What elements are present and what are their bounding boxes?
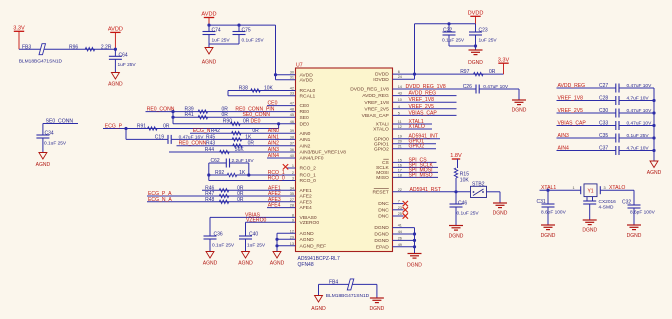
- net label VREF_2V5: [393, 108, 457, 110]
- svg-text:AIN2: AIN2: [300, 143, 311, 149]
- pin 4 VREF_2V5 (right): [364, 105, 399, 113]
- svg-text:30: 30: [290, 71, 294, 75]
- svg-text:23: 23: [398, 206, 402, 210]
- svg-text:0.47uF 10V: 0.47uF 10V: [627, 121, 653, 127]
- svg-text:AFE3: AFE3: [300, 199, 313, 205]
- svg-text:38: 38: [290, 135, 294, 139]
- capacitor C36: [209, 217, 211, 236]
- svg-text:3: 3: [604, 186, 606, 190]
- svg-text:36: 36: [290, 148, 294, 152]
- svg-text:AIN4/LPF0: AIN4/LPF0: [300, 156, 324, 162]
- resistor R91: [148, 127, 157, 130]
- svg-text:RE0_CONN: RE0_CONN: [179, 141, 207, 147]
- ground DGND below C26: [512, 99, 526, 101]
- svg-text:AVDD_REG: AVDD_REG: [362, 93, 389, 99]
- svg-text:DE0: DE0: [300, 121, 310, 127]
- svg-text:19: 19: [398, 135, 402, 139]
- svg-text:DE0: DE0: [251, 119, 261, 125]
- net label DVDD_REG_1V8 / capacitor C26: [393, 88, 477, 90]
- svg-text:XTALO: XTALO: [409, 124, 425, 130]
- svg-text:10K: 10K: [460, 178, 470, 184]
- svg-text:37: 37: [290, 142, 294, 146]
- pin 28 AFE4 (left): [290, 204, 312, 212]
- pin 12 AGND (left): [290, 229, 314, 237]
- resistor R44: [169, 151, 296, 153]
- svg-text:9: 9: [292, 218, 294, 222]
- svg-text:R92: R92: [215, 170, 224, 176]
- pin 34 AFE1 (left): [290, 186, 312, 194]
- no-connect X on DNC pin: [393, 215, 404, 217]
- svg-text:10: 10: [398, 98, 402, 102]
- resistor R96: [85, 48, 95, 51]
- svg-text:RE0_CONN: RE0_CONN: [147, 107, 175, 113]
- svg-text:EPAD: EPAD: [376, 244, 389, 250]
- svg-text:26: 26: [398, 236, 402, 240]
- svg-text:2.2R: 2.2R: [101, 44, 112, 50]
- wire switch to DGND: [487, 191, 501, 193]
- svg-text:AD5941_RST: AD5941_RST: [410, 187, 441, 193]
- ground AGND below AGND pins: [273, 252, 281, 259]
- svg-text:0.1uF 25V: 0.1uF 25V: [627, 133, 650, 139]
- switch STB2: [471, 186, 487, 197]
- svg-text:AFE2: AFE2: [300, 194, 313, 200]
- svg-text:VZERO0: VZERO0: [300, 220, 320, 226]
- ferrite bead FB3: [39, 44, 46, 55]
- net label AD5941_RST / wire: [393, 191, 471, 193]
- svg-text:C75: C75: [242, 27, 251, 33]
- svg-text:C31: C31: [537, 199, 546, 205]
- svg-text:12: 12: [398, 125, 402, 129]
- svg-text:0.1uF 25V: 0.1uF 25V: [242, 37, 265, 43]
- resistor R43: [233, 144, 242, 147]
- svg-text:C19: C19: [155, 134, 164, 140]
- pin 18 MISO (right): [376, 173, 402, 181]
- net label VZERO0 / wire: [246, 221, 296, 223]
- svg-text:DGND: DGND: [468, 60, 483, 66]
- capacitor C19: [126, 138, 168, 140]
- svg-text:R91: R91: [137, 124, 146, 130]
- svg-text:AGND: AGND: [300, 231, 315, 237]
- net label XTALO (crystal): [600, 189, 634, 191]
- net label SPI_MOSI: [393, 171, 439, 173]
- pin 1 RCO_2 (left): [292, 164, 316, 172]
- svg-text:42: 42: [290, 87, 294, 91]
- svg-text:DVDD: DVDD: [468, 11, 484, 17]
- capacitor C74: [208, 25, 210, 31]
- svg-text:AIN4: AIN4: [558, 146, 569, 152]
- svg-text:RCO_2: RCO_2: [300, 166, 317, 172]
- resistor R90 (DE0 row): [173, 123, 296, 125]
- svg-text:DGND: DGND: [582, 228, 597, 234]
- svg-text:AFE4: AFE4: [300, 205, 313, 211]
- svg-text:VBIAS_CAP: VBIAS_CAP: [558, 121, 587, 127]
- net label AVDD_REG: [393, 95, 457, 97]
- svg-text:4: 4: [398, 105, 400, 109]
- net label SPI_SCLK: [393, 166, 439, 168]
- net label SPI_MISO: [393, 176, 439, 178]
- svg-text:3: 3: [292, 177, 294, 181]
- net label ECG_N_A / resistor R48 (AFE3): [147, 201, 296, 203]
- svg-text:1K: 1K: [239, 170, 246, 176]
- svg-text:21: 21: [398, 145, 402, 149]
- svg-text:AGND: AGND: [647, 170, 662, 176]
- wire FB4 right: [376, 284, 378, 297]
- svg-text:ECG_P: ECG_P: [105, 124, 123, 130]
- pin 2 RCO_1 (left): [292, 171, 316, 179]
- no-connect X on DNC pin: [393, 203, 404, 205]
- svg-text:AIN4: AIN4: [268, 153, 279, 159]
- wire node B vertical: [248, 163, 250, 175]
- pin 30 AVDD (left): [290, 71, 313, 79]
- svg-text:DGND: DGND: [374, 232, 389, 238]
- svg-text:GPIO2: GPIO2: [374, 146, 389, 152]
- svg-text:AGND: AGND: [203, 261, 218, 267]
- svg-text:49: 49: [398, 243, 402, 247]
- svg-text:25: 25: [398, 212, 402, 216]
- svg-text:22: 22: [398, 188, 402, 192]
- ground DGND below Y1: [583, 219, 597, 221]
- svg-text:18: 18: [398, 173, 402, 177]
- wire vertical RE0_CONN branch: [172, 112, 174, 124]
- capacitor C28 (VREF_1V8): [557, 100, 616, 102]
- svg-text:AVDD: AVDD: [108, 27, 123, 33]
- svg-text:R41: R41: [185, 112, 194, 118]
- svg-text:11: 11: [398, 120, 402, 124]
- ground AGND below C64: [111, 73, 119, 80]
- svg-text:14: 14: [398, 85, 402, 89]
- svg-text:QFN48: QFN48: [298, 262, 314, 268]
- pin 26 DGND (right): [374, 236, 402, 244]
- svg-text:R45: R45: [206, 134, 215, 140]
- power 1.8V: [452, 158, 460, 160]
- svg-text:12: 12: [290, 229, 294, 233]
- pin 24 IOVDD (right): [373, 75, 402, 83]
- net label SPI_CS: [393, 161, 437, 163]
- wire ECG_P up to DE0 pin: [278, 124, 280, 129]
- svg-text:R48: R48: [205, 197, 214, 203]
- svg-text:AFE1: AFE1: [300, 188, 313, 194]
- wire cap bottoms to DGND: [449, 45, 476, 47]
- net label VREF_1V8: [393, 101, 457, 103]
- svg-text:R97: R97: [460, 69, 469, 75]
- pin 29 AGND (left): [290, 235, 314, 243]
- svg-text:VBIAS_CAP: VBIAS_CAP: [362, 113, 389, 119]
- pin 3 RCO_0 (left): [292, 177, 316, 185]
- net label RE0_CONN (AIN2 row): [177, 145, 296, 147]
- net label RCO_0: [209, 180, 296, 182]
- pin 38 AIN1 (left): [290, 135, 311, 143]
- net label VBIAS_CAP: [393, 114, 457, 116]
- wire 3.3V to AVDD node: [19, 48, 115, 50]
- svg-text:AVDD_REG: AVDD_REG: [558, 83, 586, 89]
- crystal Y1: [580, 186, 582, 194]
- svg-text:45: 45: [290, 113, 294, 117]
- capacitor C64: [114, 49, 116, 56]
- pin 23 DNC (right): [378, 206, 402, 214]
- svg-text:DVDD: DVDD: [375, 72, 389, 78]
- power AVDD (top-middle): [204, 17, 214, 19]
- wire cap bottoms: [209, 43, 239, 45]
- svg-text:C30: C30: [599, 108, 608, 114]
- svg-text:GPIO2: GPIO2: [409, 144, 425, 150]
- capacitor C32: [633, 190, 635, 205]
- svg-text:XTALO: XTALO: [373, 127, 389, 133]
- wire FB4 left: [319, 283, 377, 285]
- pin 31 AVDD (left): [290, 76, 313, 84]
- svg-text:SPI_MISO: SPI_MISO: [409, 172, 433, 178]
- resistor R15: [457, 159, 459, 168]
- pin 49 EPAD (right): [376, 243, 402, 251]
- pin 45 SE0 (left): [290, 113, 309, 121]
- ground DGND below C46: [449, 225, 463, 227]
- capacitor C46: [455, 192, 457, 204]
- junction RST/C46: [454, 190, 457, 193]
- svg-text:AGND: AGND: [270, 261, 285, 267]
- svg-text:17: 17: [398, 168, 402, 172]
- pin 44 DGND (right): [374, 230, 402, 238]
- svg-text:C33: C33: [599, 121, 608, 127]
- svg-text:8.6pF 100V: 8.6pF 100V: [630, 209, 656, 215]
- svg-text:0.1uF 25V: 0.1uF 25V: [212, 243, 235, 249]
- resistor R46 (AFE1): [202, 189, 296, 191]
- ground AGND below decoupling bus: [650, 161, 658, 168]
- net label AIN4: [267, 157, 296, 159]
- pin 10 VREF_1V8 (right): [364, 98, 402, 106]
- svg-text:STB2: STB2: [472, 181, 485, 187]
- svg-text:0R: 0R: [248, 141, 255, 147]
- svg-text:3.3V: 3.3V: [498, 57, 510, 63]
- wire DVDD vertical bus: [414, 24, 416, 79]
- svg-text:C62: C62: [211, 158, 220, 164]
- pin 7 DNC (right): [378, 200, 400, 208]
- svg-text:R90: R90: [223, 119, 232, 125]
- pin 16 SCLK (right): [376, 163, 402, 171]
- net label AD5941_INT: [393, 138, 441, 140]
- wire node A vertical: [208, 163, 210, 181]
- net label ECG_N: [190, 132, 296, 134]
- pin 13 AGND_REF (left): [290, 242, 326, 250]
- svg-text:VREF_2V5: VREF_2V5: [409, 104, 435, 110]
- svg-text:AIN1: AIN1: [300, 137, 311, 143]
- pin 35 AFE2 (left): [290, 192, 312, 200]
- wire RCAL1 loop: [227, 91, 229, 96]
- svg-text:DGND: DGND: [374, 225, 389, 231]
- svg-text:1K: 1K: [245, 134, 252, 140]
- svg-text:1uF 25V: 1uF 25V: [479, 38, 498, 44]
- svg-text:R42: R42: [211, 128, 220, 134]
- power 3.3V (right): [498, 62, 508, 64]
- pin 47 CE0 (left): [290, 102, 310, 110]
- pin 48 RE0 (left): [290, 108, 310, 116]
- ground AGND below C74/C75: [205, 48, 213, 55]
- svg-text:VREF_2V5: VREF_2V5: [364, 106, 389, 112]
- wire ECG_P branch down to C19: [125, 129, 127, 140]
- svg-text:DGND: DGND: [370, 306, 385, 312]
- svg-text:1.8V: 1.8V: [450, 153, 462, 159]
- svg-text:AIN0: AIN0: [300, 131, 311, 137]
- svg-text:43: 43: [398, 92, 402, 96]
- net label SE0_CONN (left): [43, 123, 78, 125]
- svg-text:AGND_REF: AGND_REF: [300, 243, 327, 249]
- svg-text:33: 33: [290, 92, 294, 96]
- junction C75: [237, 24, 240, 27]
- capacitor C30 (VREF_2V5): [557, 112, 616, 114]
- pin 33 RCAL1 (left): [290, 92, 316, 100]
- capacitor C37 (AIN4): [557, 150, 616, 152]
- pin 36 AIN3/BUF_VREF1V8 (left): [290, 148, 346, 156]
- power AVDD (after R96): [110, 31, 120, 33]
- resistor R38: [228, 90, 296, 92]
- svg-text:VREF_1V8: VREF_1V8: [558, 96, 584, 102]
- crystal case ground plates: [586, 197, 588, 201]
- svg-text:VREF_2V5: VREF_2V5: [558, 108, 584, 114]
- svg-text:34: 34: [290, 186, 294, 190]
- svg-text:1uF 25V: 1uF 25V: [247, 243, 266, 249]
- svg-text:C27: C27: [599, 83, 608, 89]
- svg-text:DGND: DGND: [512, 108, 527, 114]
- svg-text:VZERO0: VZERO0: [246, 217, 267, 223]
- svg-text:0R: 0R: [252, 128, 259, 134]
- svg-text:0.1uF 25V: 0.1uF 25V: [442, 38, 465, 44]
- pin 41 DGND (right): [374, 224, 402, 232]
- ground DGND below STB2: [493, 202, 507, 204]
- svg-text:BLM18BG471SN1D: BLM18BG471SN1D: [326, 293, 370, 299]
- svg-text:C40: C40: [249, 231, 258, 237]
- pin 22 RESET (right): [372, 188, 401, 196]
- svg-text:C28: C28: [599, 96, 608, 102]
- svg-text:56K: 56K: [235, 147, 245, 153]
- pin 11 XTALI (right): [376, 120, 402, 128]
- svg-text:AGND: AGND: [300, 237, 315, 243]
- svg-text:7: 7: [398, 200, 400, 204]
- svg-text:AFE4: AFE4: [268, 203, 281, 209]
- svg-text:DVDD_REG_1V8: DVDD_REG_1V8: [406, 84, 446, 90]
- svg-text:39: 39: [290, 129, 294, 133]
- pin 19 GPIO0 (right): [374, 135, 402, 143]
- svg-text:1uF 25V: 1uF 25V: [118, 62, 137, 68]
- svg-text:Y1: Y1: [587, 189, 593, 195]
- svg-text:CE0: CE0: [268, 101, 278, 107]
- svg-text:SE0_CONN: SE0_CONN: [46, 119, 74, 125]
- junction ECG_P/C19: [124, 127, 127, 130]
- ground AGND below C34: [39, 153, 47, 160]
- svg-text:2.2uF 16V: 2.2uF 16V: [232, 158, 255, 164]
- svg-text:RCO_0: RCO_0: [268, 176, 285, 182]
- svg-text:8.6pF 100V: 8.6pF 100V: [541, 209, 567, 215]
- svg-text:ECG_N: ECG_N: [193, 128, 211, 134]
- svg-text:31: 31: [290, 76, 294, 80]
- svg-text:0R: 0R: [237, 197, 244, 203]
- no-connect X on RCO_2: [287, 167, 296, 169]
- junction C74: [207, 24, 210, 27]
- pin 6 DVDD (right): [375, 70, 400, 78]
- svg-text:C74: C74: [212, 27, 221, 33]
- svg-text:AGND: AGND: [238, 261, 253, 267]
- pin 20 GPIO1 (right): [374, 140, 402, 148]
- svg-text:AIN2: AIN2: [268, 141, 279, 147]
- pin 39 AIN0 (left): [290, 129, 311, 137]
- svg-text:R38: R38: [239, 86, 248, 92]
- junction AVDD pin30: [274, 73, 277, 76]
- svg-text:SE0: SE0: [300, 115, 310, 121]
- svg-text:R43: R43: [206, 141, 215, 147]
- capacitor C27 (AVDD_REG): [557, 87, 616, 89]
- pin 17 MOSI (right): [376, 168, 402, 176]
- resistor R97 to 3.3V: [415, 73, 504, 75]
- svg-text:XTALO: XTALO: [609, 185, 625, 191]
- svg-text:RCO_0: RCO_0: [300, 178, 317, 184]
- svg-text:R96: R96: [69, 44, 78, 50]
- svg-text:0.47uF 10V: 0.47uF 10V: [627, 83, 653, 89]
- net label RCO_1: [249, 174, 296, 176]
- no-connect X on DNC pin: [393, 209, 404, 211]
- svg-text:RCO_1: RCO_1: [300, 173, 317, 179]
- wire DVDD rail: [415, 23, 476, 25]
- pin 37 AIN2 (left): [290, 142, 311, 150]
- svg-text:AVDD: AVDD: [201, 12, 216, 18]
- svg-text:47: 47: [290, 102, 294, 106]
- svg-text:DGND: DGND: [449, 234, 464, 240]
- svg-text:AVDD: AVDD: [300, 77, 314, 83]
- svg-text:4.7uF 10V: 4.7uF 10V: [627, 146, 650, 152]
- svg-text:DGND: DGND: [374, 238, 389, 244]
- svg-text:VREF_1V8: VREF_1V8: [409, 97, 435, 103]
- svg-text:0.1uF 25V: 0.1uF 25V: [44, 140, 67, 146]
- ground DGND below DGND pins: [408, 253, 422, 255]
- svg-text:IOVDD: IOVDD: [373, 77, 389, 83]
- ground DGND below C31: [541, 224, 555, 226]
- junction DE0/ECG_P: [277, 122, 280, 125]
- junction node AVDD/C64: [114, 48, 117, 51]
- wire AVDD rail down to AVDD pins: [275, 25, 277, 80]
- svg-text:AGND: AGND: [36, 162, 51, 168]
- resistor R45: [232, 138, 241, 141]
- svg-text:C46: C46: [458, 200, 467, 206]
- svg-text:C34: C34: [45, 131, 54, 137]
- pin 43 AVDD_REG (right): [362, 92, 402, 100]
- svg-text:16: 16: [398, 163, 402, 167]
- svg-text:AIN3: AIN3: [558, 133, 569, 139]
- svg-text:DGND: DGND: [493, 211, 508, 217]
- svg-text:AGND: AGND: [311, 306, 326, 312]
- svg-text:CX2016: CX2016: [599, 199, 617, 205]
- svg-text:35: 35: [290, 192, 294, 196]
- power 3.3V (top-left): [14, 30, 24, 32]
- svg-text:AIN3/BUF_VREF1V8: AIN3/BUF_VREF1V8: [300, 150, 347, 156]
- svg-text:VREF_1V8: VREF_1V8: [364, 100, 389, 106]
- svg-text:4-SMD: 4-SMD: [599, 205, 614, 211]
- svg-text:48: 48: [290, 108, 294, 112]
- ground DGND below C32: [627, 224, 641, 226]
- svg-text:1: 1: [292, 164, 294, 168]
- wire AGND pins bus: [277, 232, 296, 234]
- capacitor C62: [209, 162, 227, 164]
- net label AFE4: [267, 207, 296, 209]
- wire decoupling bus vertical: [653, 88, 655, 161]
- svg-text:0R: 0R: [243, 119, 250, 125]
- svg-text:DGND: DGND: [541, 233, 556, 239]
- svg-text:1: 1: [573, 186, 575, 190]
- net label CE0: [267, 105, 296, 107]
- svg-text:DVDD_REG_1V8: DVDD_REG_1V8: [350, 87, 389, 93]
- svg-text:41: 41: [398, 224, 402, 228]
- svg-text:29: 29: [290, 235, 294, 239]
- svg-text:AIN1: AIN1: [268, 134, 279, 140]
- pin 21 GPIO2 (right): [374, 145, 402, 153]
- pin 14 DVDD_REG_1V8 (right): [350, 85, 402, 93]
- pin 27 AFE3 (left): [290, 198, 312, 206]
- svg-text:0.47uF 10V: 0.47uF 10V: [483, 84, 509, 90]
